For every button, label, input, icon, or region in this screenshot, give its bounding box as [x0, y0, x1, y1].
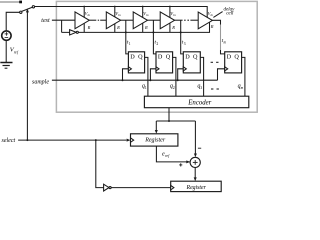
svg-text:Q: Q — [193, 54, 198, 61]
wire R stub buffer4 — [169, 23, 171, 32]
inverter feedback — [70, 30, 77, 35]
label q3 — [197, 83, 202, 90]
svg-text:D: D — [130, 54, 135, 61]
wire select — [18, 139, 126, 141]
wire sample — [52, 79, 218, 81]
arrowhead eref into summer — [186, 160, 190, 163]
flip-flop FF4 — [225, 52, 242, 73]
label Vin buffer4 — [170, 11, 176, 17]
svg-text:Register: Register — [186, 185, 207, 191]
svg-text:R: R — [116, 25, 120, 30]
register1 box — [131, 134, 178, 146]
svg-text:Register: Register — [144, 138, 166, 144]
wire tap t1 — [126, 20, 129, 54]
wire R stub buffer3 — [142, 23, 144, 32]
wire supply rail — [35, 7, 208, 18]
wire clock tap FF1 — [123, 69, 129, 80]
wire Q3 to encoder — [200, 57, 203, 96]
wire feedback elbow down to bus — [61, 20, 63, 32]
svg-text:2: 2 — [173, 86, 175, 90]
ground — [0, 62, 12, 64]
wire encoder output tree — [168, 108, 170, 121]
wire select drop to bottom inverter — [96, 140, 104, 188]
svg-text:select: select — [2, 138, 16, 144]
label minus at summer (drawn) — [198, 147, 201, 149]
label t3 — [182, 39, 186, 46]
wire bus R line — [62, 22, 210, 32]
wire buffer4 output with ellipsis — [175, 19, 183, 21]
delay cell buffer U2 — [106, 12, 120, 29]
top-left stub wire — [0, 1, 20, 3]
wire buffer3 output — [147, 19, 160, 21]
svg-text:Q: Q — [166, 54, 171, 61]
outer block box — [56, 1, 257, 112]
label qm — [238, 83, 244, 90]
label plus at summer (drawn) — [179, 164, 182, 166]
svg-text:in: in — [173, 13, 176, 17]
wire Q2 to encoder — [173, 57, 176, 96]
label Vin buffer2 — [115, 11, 121, 17]
svg-text:3: 3 — [184, 42, 186, 46]
svg-text:Encoder: Encoder — [187, 99, 211, 106]
wire Qm to encoder — [242, 57, 245, 96]
svg-text:Q: Q — [138, 54, 143, 61]
wire R stub buffer2 — [114, 23, 116, 32]
wire R stub buffer1 — [83, 23, 85, 32]
svg-text:D: D — [185, 54, 190, 61]
wire tap t2 — [153, 20, 156, 54]
ellipsis q row — [211, 88, 213, 90]
wire tap t3 — [181, 20, 184, 54]
wire tap tm from last buffer — [212, 20, 220, 24]
label Vin buffer1 — [85, 11, 91, 17]
label q1 — [142, 83, 147, 90]
wire clock tap FF2 — [150, 69, 156, 80]
label Vin buffer3 — [143, 11, 149, 17]
voltage source Vref — [2, 31, 11, 40]
arrowhead into register1 — [155, 130, 158, 134]
leader line delay cell — [213, 12, 222, 18]
encoder box — [144, 96, 248, 108]
label q2 — [170, 83, 175, 90]
wire supply drop buffer2 — [114, 7, 116, 18]
svg-text:m: m — [224, 41, 227, 45]
svg-text:R: R — [210, 24, 214, 29]
flip-flop FF2 — [156, 52, 173, 73]
svg-text:in: in — [211, 13, 214, 17]
svg-text:R: R — [144, 25, 148, 30]
wire supply drop buffer1 — [83, 7, 85, 18]
wire inverter to register2 clock — [111, 187, 171, 189]
wire clock tap FF4 — [218, 69, 225, 80]
svg-text:in: in — [88, 13, 91, 17]
svg-text:R: R — [171, 25, 175, 30]
delay cell buffer U3 — [133, 12, 147, 29]
delay cell buffer U5 — [198, 12, 212, 29]
svg-text:sample: sample — [32, 79, 49, 85]
svg-text:1: 1 — [145, 86, 147, 90]
arrowhead into summer top — [194, 154, 197, 158]
switch S1 pole contact — [20, 11, 22, 13]
svg-text:m: m — [241, 86, 244, 90]
wire buffer2 output — [121, 19, 134, 21]
wire clock tap FF3 — [178, 69, 184, 80]
svg-text:R: R — [87, 25, 91, 30]
select control vertical with arrow to switch — [26, 11, 28, 140]
register2 box — [171, 181, 222, 191]
svg-text:D: D — [227, 54, 232, 61]
switch S1 arm — [22, 7, 32, 11]
arrowhead into register2 — [194, 177, 197, 181]
svg-text:2: 2 — [156, 42, 158, 46]
wire summer to register2 — [194, 168, 196, 179]
wire buffer1 output with ellipsis — [89, 19, 96, 21]
wire Vref to switch pole — [6, 12, 19, 30]
svg-text:D: D — [158, 54, 163, 61]
delay cell buffer U1 — [75, 12, 89, 29]
svg-text:1: 1 — [129, 42, 131, 46]
svg-text:Q: Q — [234, 54, 239, 61]
wire supply drop buffer3 — [142, 7, 144, 18]
label t1 — [127, 39, 131, 46]
svg-text:in: in — [146, 13, 149, 17]
label t2 — [155, 39, 159, 46]
svg-text:test: test — [41, 18, 50, 24]
wire eref — [156, 146, 189, 162]
wire Q1 to encoder — [145, 57, 148, 96]
switch S1 throw contact — [32, 6, 34, 8]
svg-text:in: in — [118, 13, 121, 17]
label Vin buffer5 — [208, 11, 214, 17]
delay cell buffer U4 — [160, 12, 174, 29]
label eref — [162, 152, 170, 159]
inverter bottom — [104, 184, 109, 191]
svg-text:cell: cell — [226, 11, 234, 16]
wire test input — [52, 19, 75, 21]
summer — [190, 157, 200, 167]
ellipsis between FF3 and FF4 — [211, 61, 213, 63]
flip-flop FF1 — [128, 52, 144, 73]
label tm — [222, 38, 227, 45]
flip-flop FF3 — [183, 52, 200, 73]
arrowhead select into register1 — [127, 139, 131, 142]
wire supply drop buffer4 — [169, 7, 171, 18]
wire Vref to ground — [5, 40, 7, 62]
node (square terminal) — [19, 1, 22, 4]
svg-text:3: 3 — [200, 86, 202, 90]
